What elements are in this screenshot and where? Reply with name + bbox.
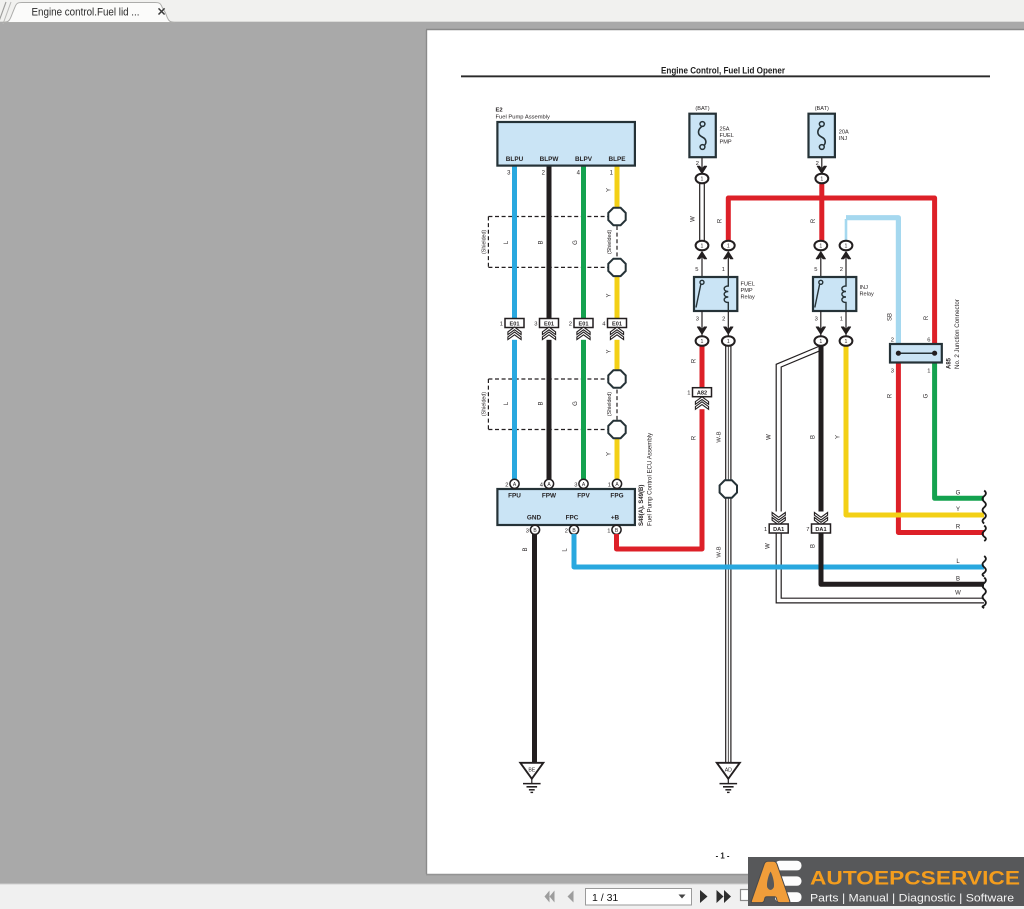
wire Y crossing patch	[892, 513, 905, 518]
svg-text:3: 3	[891, 369, 894, 375]
ECU side label	[639, 432, 654, 526]
svg-text:+B: +B	[611, 515, 620, 522]
svg-text:A85: A85	[947, 357, 953, 369]
connector A82	[687, 388, 711, 410]
svg-text:3: 3	[574, 483, 577, 489]
wire L blue BLPU	[504, 164, 515, 479]
relay FUEL PMP	[694, 277, 755, 311]
svg-text:G: G	[573, 240, 579, 245]
shield box 2 (lower)	[482, 379, 618, 430]
svg-text:W-B: W-B	[717, 546, 723, 557]
svg-text:2: 2	[565, 529, 568, 535]
wire break G Y	[983, 491, 986, 524]
svg-text:1: 1	[687, 391, 690, 397]
svg-text:B: B	[956, 576, 960, 582]
partial toolbar icon	[741, 890, 753, 901]
node relay1 pin1	[722, 241, 735, 277]
shield octagon 3	[608, 370, 625, 387]
svg-text:(Shielded): (Shielded)	[482, 230, 488, 254]
svg-text:BE: BE	[528, 768, 535, 774]
svg-text:AD: AD	[725, 768, 732, 774]
svg-text:S48(A), S49(B): S48(A), S49(B)	[639, 485, 645, 526]
svg-text:1: 1	[820, 177, 823, 183]
wire B INJ relay to right edge	[811, 346, 985, 584]
svg-text:1: 1	[845, 244, 848, 250]
svg-text:1: 1	[607, 529, 610, 535]
svg-text:1: 1	[819, 244, 822, 250]
wire break B W	[983, 578, 986, 608]
relay INJ	[813, 277, 874, 311]
svg-text:AUTOEPCSERVICE: AUTOEPCSERVICE	[810, 868, 1020, 890]
wire R from +B up to fuel pump relay	[617, 346, 703, 549]
wire B to ground BE	[523, 534, 535, 762]
node relay1 pin2 out	[722, 336, 735, 346]
svg-text:FUEL: FUEL	[741, 282, 755, 288]
svg-text:W: W	[691, 216, 697, 222]
svg-text:1: 1	[845, 339, 848, 345]
wire R junction to right edge	[888, 361, 985, 533]
svg-text:Relay: Relay	[741, 295, 756, 301]
svg-text:(BAT): (BAT)	[815, 106, 829, 112]
svg-text:G: G	[573, 401, 579, 406]
svg-text:1: 1	[819, 339, 822, 345]
svg-text:FPU: FPU	[508, 493, 521, 500]
shield octagon 1	[608, 208, 625, 225]
svg-text:2: 2	[722, 317, 725, 323]
svg-text:1: 1	[764, 527, 767, 533]
fuel pump assembly E2	[496, 108, 635, 166]
bottom toolbar	[0, 884, 1024, 909]
connector E01 pin 4	[602, 319, 626, 340]
svg-text:BLPU: BLPU	[506, 156, 524, 163]
fuel pump control ECU S48/S49	[497, 489, 635, 525]
fuse2 pin 2 lead	[816, 158, 827, 174]
svg-text:B: B	[811, 435, 817, 439]
svg-text:PMP: PMP	[741, 288, 753, 294]
AutoEPCService logo	[748, 857, 1024, 906]
svg-text:BLPV: BLPV	[575, 156, 593, 163]
svg-text:G: G	[956, 490, 961, 496]
E2 pin numbers	[507, 171, 614, 177]
svg-text:Y: Y	[607, 188, 613, 192]
svg-text:1: 1	[608, 483, 611, 489]
fuse 20A INJ	[809, 106, 850, 157]
svg-text:3: 3	[815, 317, 818, 323]
svg-text:FPV: FPV	[577, 493, 590, 500]
fuse 25A FUEL PMP	[689, 106, 733, 157]
svg-text:5: 5	[814, 267, 817, 273]
svg-text:Fuel Pump Control ECU Assembly: Fuel Pump Control ECU Assembly	[647, 432, 654, 526]
svg-text:3: 3	[534, 321, 537, 327]
wire SB to junction connector	[846, 218, 898, 345]
relay2 bottom pins	[815, 311, 851, 336]
wire R battery bus	[718, 183, 935, 345]
svg-text:2: 2	[891, 338, 894, 344]
document page	[426, 30, 1024, 875]
prev page button	[568, 891, 574, 903]
last page button	[717, 890, 732, 903]
svg-text:SB: SB	[888, 313, 894, 321]
svg-text:Engine control.Fuel lid ...: Engine control.Fuel lid ...	[32, 6, 140, 18]
wire L FPC to right edge	[563, 534, 985, 567]
svg-text:G: G	[924, 393, 930, 398]
svg-text:R: R	[718, 218, 724, 223]
node fuse1 out	[696, 174, 709, 184]
svg-text:3: 3	[526, 529, 529, 535]
svg-text:7: 7	[806, 527, 809, 533]
svg-text:1: 1	[722, 267, 725, 273]
page number box	[586, 889, 692, 906]
svg-text:1 / 31: 1 / 31	[592, 892, 618, 904]
wire break R	[983, 526, 986, 541]
svg-text:W: W	[767, 434, 773, 440]
svg-text:Engine Control, Fuel Lid Opene: Engine Control, Fuel Lid Opener	[661, 66, 785, 76]
svg-text:B: B	[539, 401, 545, 405]
wire break L	[983, 556, 986, 576]
svg-text:R: R	[956, 525, 961, 531]
ECU top pin circles A	[505, 479, 621, 488]
relay1 bottom pins	[696, 311, 733, 336]
wire W fuse1 to relay	[691, 183, 705, 241]
title	[461, 66, 990, 78]
svg-text:R: R	[924, 315, 930, 320]
svg-text:B: B	[811, 544, 817, 548]
svg-text:1: 1	[701, 177, 704, 183]
svg-text:No. 2 Junction Connector: No. 2 Junction Connector	[954, 299, 961, 369]
svg-text:1: 1	[840, 317, 843, 323]
active tab	[3, 3, 175, 23]
svg-text:PMP: PMP	[720, 140, 732, 146]
connector E01 pin 1	[500, 319, 524, 340]
svg-text:1: 1	[727, 244, 730, 250]
svg-text:DA1: DA1	[773, 527, 784, 533]
next page button	[700, 890, 708, 903]
ground AD	[717, 763, 740, 793]
svg-text:25A: 25A	[720, 127, 730, 133]
ground BE	[520, 763, 543, 793]
shield octagon W-B	[720, 480, 737, 497]
node relay2 pin2	[840, 241, 853, 277]
first page button	[545, 891, 555, 903]
svg-text:Fuel Pump Assembly: Fuel Pump Assembly	[496, 115, 551, 121]
wire Y INJ relay to right edge	[836, 346, 985, 515]
svg-text:2: 2	[505, 483, 508, 489]
node relay2 pin5	[814, 241, 827, 277]
svg-text:R: R	[811, 218, 817, 223]
svg-text:(Shielded): (Shielded)	[482, 392, 488, 416]
svg-text:FUEL: FUEL	[720, 133, 734, 139]
node relay2 pin1 out	[840, 336, 853, 346]
svg-text:2: 2	[569, 321, 572, 327]
A85 side label	[947, 299, 962, 369]
svg-text:FPC: FPC	[566, 515, 579, 522]
wire W relay2 to DA1 and right edge	[766, 347, 985, 603]
svg-text:(Shielded): (Shielded)	[607, 230, 613, 254]
partial tab edge left	[0, 2, 11, 24]
wire G junction to right edge	[924, 361, 984, 498]
svg-text:W: W	[766, 543, 772, 549]
svg-text:(BAT): (BAT)	[695, 106, 709, 112]
svg-text:1: 1	[701, 339, 704, 345]
wire B black BLPW	[539, 164, 550, 479]
connector E01 pin 2	[569, 319, 593, 340]
tab bar	[0, 0, 1024, 22]
wire L crossing patch	[721, 565, 788, 570]
svg-text:(Shielded): (Shielded)	[607, 392, 613, 416]
wire W-B relay1 to ground AD	[717, 346, 731, 762]
connector DA1 pin 7	[806, 512, 830, 534]
svg-text:R: R	[692, 435, 698, 440]
svg-text:GND: GND	[527, 515, 542, 522]
svg-text:W: W	[955, 591, 961, 597]
connector DA1 pin 1	[764, 512, 788, 534]
svg-text:B: B	[539, 240, 545, 244]
svg-text:20A: 20A	[839, 130, 849, 136]
svg-text:E2: E2	[496, 108, 503, 114]
shield octagon 4	[608, 421, 625, 438]
svg-text:Y: Y	[607, 349, 613, 353]
fuse1 pin 2 lead	[696, 158, 707, 174]
node relay1 pin5	[695, 241, 708, 277]
svg-text:R: R	[692, 358, 698, 363]
svg-text:FPW: FPW	[542, 493, 557, 500]
svg-text:Y: Y	[607, 293, 613, 297]
svg-text:1: 1	[927, 369, 930, 375]
shield box 1 (upper)	[482, 217, 618, 268]
svg-text:R: R	[888, 393, 894, 398]
page number	[716, 852, 730, 861]
shield octagon 2	[608, 259, 625, 276]
svg-text:INJ: INJ	[839, 136, 848, 142]
svg-text:5: 5	[695, 267, 698, 273]
svg-text:Y: Y	[836, 435, 842, 439]
svg-text:2: 2	[840, 267, 843, 273]
svg-text:6: 6	[927, 338, 930, 344]
svg-text:Parts | Manual | Diagnostic |: Parts | Manual | Diagnostic | Software	[810, 893, 1014, 905]
svg-text:BLPW: BLPW	[540, 156, 560, 163]
svg-text:DA1: DA1	[815, 527, 826, 533]
svg-text:Y: Y	[956, 507, 960, 513]
ECU bottom pin circles B	[526, 525, 621, 535]
node relay2 pin3 out	[814, 336, 827, 346]
svg-text:W-B: W-B	[717, 431, 723, 442]
node relay1 pin3 out	[696, 336, 709, 346]
svg-text:INJ: INJ	[860, 285, 869, 291]
svg-text:- 1 -: - 1 -	[716, 852, 730, 861]
svg-text:3: 3	[696, 317, 699, 323]
svg-text:FPG: FPG	[610, 493, 623, 500]
svg-text:1: 1	[701, 244, 704, 250]
svg-text:Relay: Relay	[860, 292, 875, 298]
wire Y yellow BLPE (interrupted by shield octagons)	[607, 164, 618, 479]
svg-text:Y: Y	[607, 452, 613, 456]
svg-text:A82: A82	[697, 391, 707, 397]
svg-text:1: 1	[500, 321, 503, 327]
connector E01 pin 3	[534, 319, 558, 340]
svg-text:1: 1	[727, 339, 730, 345]
junction connector A85	[890, 338, 942, 375]
svg-text:BLPE: BLPE	[608, 156, 626, 163]
svg-text:B: B	[523, 547, 529, 551]
wire G green BLPV	[573, 164, 584, 479]
